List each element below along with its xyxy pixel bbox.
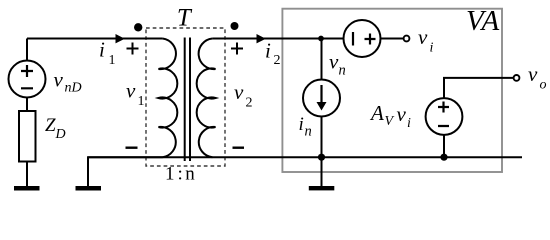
bottom rail [88, 156, 522, 158]
source v_nD [9, 61, 46, 98]
svg-text:nD: nD [65, 81, 82, 96]
polarity dot secondary [231, 22, 239, 30]
node dot bottom A_V [440, 154, 447, 161]
wire Z_D to ground [26, 162, 28, 187]
amplifier box VA [282, 9, 502, 172]
svg-text:A: A [369, 101, 384, 125]
wire secondary top to v_n source [212, 38, 343, 40]
source i_n [303, 80, 340, 117]
svg-text:v: v [528, 62, 538, 86]
plus v1 [127, 43, 139, 55]
svg-text:1: 1 [138, 94, 145, 109]
svg-text:2: 2 [246, 96, 253, 111]
minus v2 [233, 146, 245, 148]
svg-text:2: 2 [274, 53, 281, 68]
impedance Z_D [19, 111, 36, 162]
svg-text:v: v [54, 67, 64, 91]
ground 3 [309, 186, 335, 190]
transformer secondary winding [197, 39, 216, 158]
wire A_V bottom to rail [443, 135, 445, 157]
terminal v_o [514, 75, 520, 81]
svg-text:v: v [329, 49, 339, 73]
svg-text:T: T [177, 5, 193, 32]
svg-text:o: o [540, 77, 547, 92]
wire i_n source to bottom rail [321, 117, 323, 158]
svg-text:v: v [397, 102, 407, 126]
svg-text:i: i [99, 38, 105, 62]
svg-text:Z: Z [45, 115, 56, 136]
svg-text:v: v [126, 78, 136, 102]
node dot bottom i_n [318, 154, 325, 161]
wire A_V top to terminal v_o [444, 78, 514, 98]
transformer dashed box [146, 28, 225, 166]
svg-text:V: V [385, 114, 395, 129]
node dot top [318, 36, 324, 42]
wire to ground 3 [321, 157, 323, 186]
wire top from v_nD to transformer primary [27, 38, 163, 40]
svg-text::: : [178, 164, 183, 185]
svg-text:i: i [299, 114, 304, 135]
svg-text:1: 1 [109, 53, 116, 68]
source v_n [344, 20, 381, 57]
svg-text:i: i [265, 39, 271, 63]
svg-text:1: 1 [165, 164, 175, 185]
wire primary bottom to ground [88, 157, 163, 186]
wire v_nD bottom [26, 98, 28, 112]
svg-text:v: v [234, 80, 244, 104]
svg-text:i: i [407, 116, 411, 131]
transformer primary winding [159, 39, 178, 158]
transformer core [185, 38, 190, 162]
minus v1 [126, 146, 138, 148]
svg-text:n: n [185, 164, 195, 185]
wire v_nD top [26, 39, 28, 61]
wire node to i_n source [321, 39, 323, 80]
svg-text:i: i [430, 41, 434, 56]
ground 1 [14, 186, 40, 191]
svg-text:D: D [55, 127, 66, 142]
ground 2 [76, 186, 102, 191]
svg-text:VA: VA [466, 5, 500, 37]
terminal v_i [404, 36, 410, 42]
svg-text:v: v [418, 25, 428, 49]
polarity dot primary [134, 23, 142, 31]
arrow i2 [257, 34, 266, 43]
svg-text:n: n [305, 124, 312, 140]
controlled source A_V v_i [426, 98, 463, 135]
svg-text:n: n [339, 63, 346, 79]
wire v_n source to terminal v_i [381, 38, 404, 40]
arrow i1 [116, 34, 125, 43]
plus v2 [231, 43, 243, 55]
